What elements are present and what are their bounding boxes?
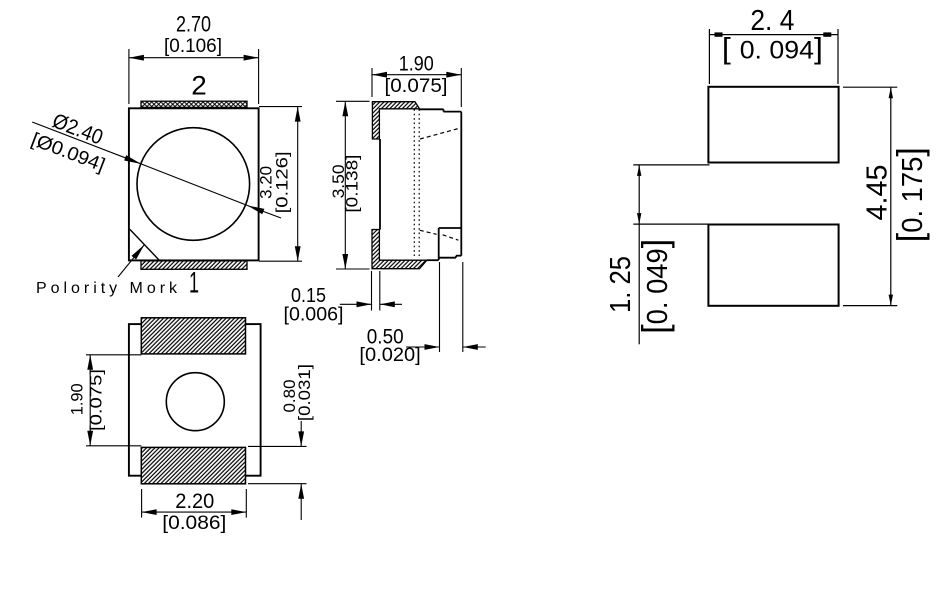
svg-text:[0.126]: [0.126]	[274, 151, 292, 213]
svg-text:[0.075]: [0.075]	[385, 76, 448, 97]
svg-text:[0.138]: [0.138]	[344, 155, 362, 213]
svg-text:2. 4: 2. 4	[750, 5, 794, 37]
svg-text:[0.020]: [0.020]	[359, 345, 420, 366]
svg-text:4.45: 4.45	[862, 165, 894, 221]
svg-text:[0.106]: [0.106]	[164, 36, 222, 57]
svg-text:[0.086]: [0.086]	[162, 513, 226, 534]
svg-text:2.70: 2.70	[176, 12, 211, 37]
svg-text:1.90: 1.90	[68, 383, 87, 415]
svg-text:1. 25: 1. 25	[605, 256, 637, 313]
svg-text:[0.031]: [0.031]	[296, 364, 314, 421]
svg-text:2: 2	[191, 70, 207, 100]
svg-text:2.20: 2.20	[175, 490, 214, 513]
svg-text:1: 1	[189, 267, 199, 300]
svg-text:1.90: 1.90	[399, 53, 434, 76]
svg-text:[0.006]: [0.006]	[284, 305, 344, 326]
svg-text:[0.075]: [0.075]	[88, 369, 106, 431]
svg-text:[ 0. 094]: [ 0. 094]	[722, 33, 823, 66]
